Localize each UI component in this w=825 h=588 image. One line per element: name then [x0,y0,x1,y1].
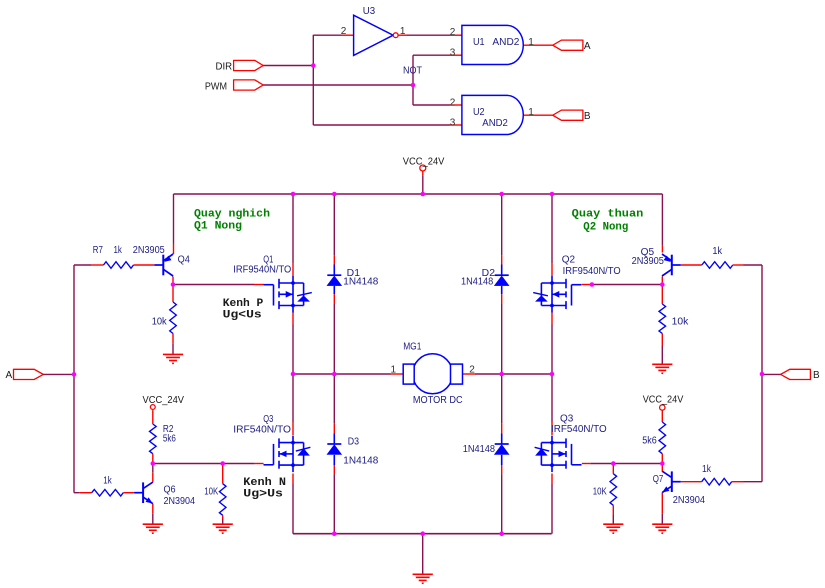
svg-text:U2: U2 [473,107,485,118]
svg-text:2N3905: 2N3905 [133,245,165,256]
svg-text:1N4148: 1N4148 [463,444,496,455]
svg-text:D3: D3 [348,437,360,448]
svg-text:DIR: DIR [216,61,233,72]
svg-text:Kenh N: Kenh N [243,477,286,489]
svg-text:Q2 Nong: Q2 Nong [583,221,628,233]
svg-text:NOT: NOT [403,65,422,76]
svg-text:1: 1 [528,107,534,118]
svg-text:1: 1 [391,365,397,376]
svg-text:A: A [6,370,13,381]
svg-text:1k: 1k [103,476,112,487]
svg-text:IRF9540N/TO: IRF9540N/TO [233,265,291,276]
svg-text:5k6: 5k6 [642,436,657,447]
svg-text:U3: U3 [363,6,376,17]
svg-text:MG1: MG1 [403,342,422,353]
svg-text:2N3904: 2N3904 [673,495,706,506]
svg-text:1k: 1k [712,246,723,257]
svg-text:2: 2 [469,365,475,376]
svg-text:2: 2 [450,97,456,108]
svg-text:U1: U1 [473,37,485,48]
svg-text:1N4148: 1N4148 [461,276,494,287]
svg-text:Ug<Us: Ug<Us [223,310,262,322]
svg-text:Kenh P: Kenh P [223,298,264,310]
svg-text:A: A [584,41,591,52]
svg-text:10K: 10K [593,487,607,498]
svg-text:2N3904: 2N3904 [164,496,196,507]
svg-text:Q4: Q4 [178,255,191,266]
svg-text:B: B [584,111,591,122]
svg-text:2: 2 [450,27,456,38]
svg-text:1: 1 [400,26,406,37]
svg-text:3: 3 [450,48,456,59]
svg-text:Q3: Q3 [560,413,574,424]
svg-text:Q2: Q2 [562,255,576,266]
svg-text:R7: R7 [93,245,103,256]
svg-text:Q3: Q3 [263,414,273,425]
svg-text:Quay thuan: Quay thuan [572,209,644,221]
svg-text:Q1 Nong: Q1 Nong [194,221,242,233]
svg-text:1k: 1k [114,245,123,256]
svg-text:VCC_24V: VCC_24V [143,395,185,406]
svg-text:1N4148: 1N4148 [343,456,378,467]
svg-text:1: 1 [528,37,534,48]
svg-text:2N3905: 2N3905 [632,256,665,267]
svg-text:1N4148: 1N4148 [343,276,378,287]
svg-text:IRF540N/TO: IRF540N/TO [233,425,291,436]
svg-text:Ug>Us: Ug>Us [243,489,283,501]
svg-text:AND2: AND2 [492,37,519,48]
svg-text:2: 2 [341,26,347,37]
svg-text:10k: 10k [152,316,168,327]
svg-text:Q7: Q7 [653,474,664,485]
svg-text:IRF9540N/TO: IRF9540N/TO [563,266,621,277]
svg-text:PWM: PWM [205,81,227,92]
svg-text:10k: 10k [672,316,690,327]
svg-text:3: 3 [450,118,456,129]
svg-text:MOTOR DC: MOTOR DC [413,395,463,406]
svg-text:1k: 1k [702,464,712,475]
svg-text:Quay nghich: Quay nghich [194,209,270,221]
svg-text:VCC_24V: VCC_24V [403,157,445,168]
svg-text:B: B [813,370,820,381]
svg-text:VCC_24V: VCC_24V [643,395,684,406]
svg-text:IRF540N/TO: IRF540N/TO [551,424,607,435]
svg-text:Q6: Q6 [164,484,176,495]
svg-text:5k6: 5k6 [163,433,176,444]
svg-text:AND2: AND2 [482,118,508,129]
svg-text:10K: 10K [204,487,218,498]
